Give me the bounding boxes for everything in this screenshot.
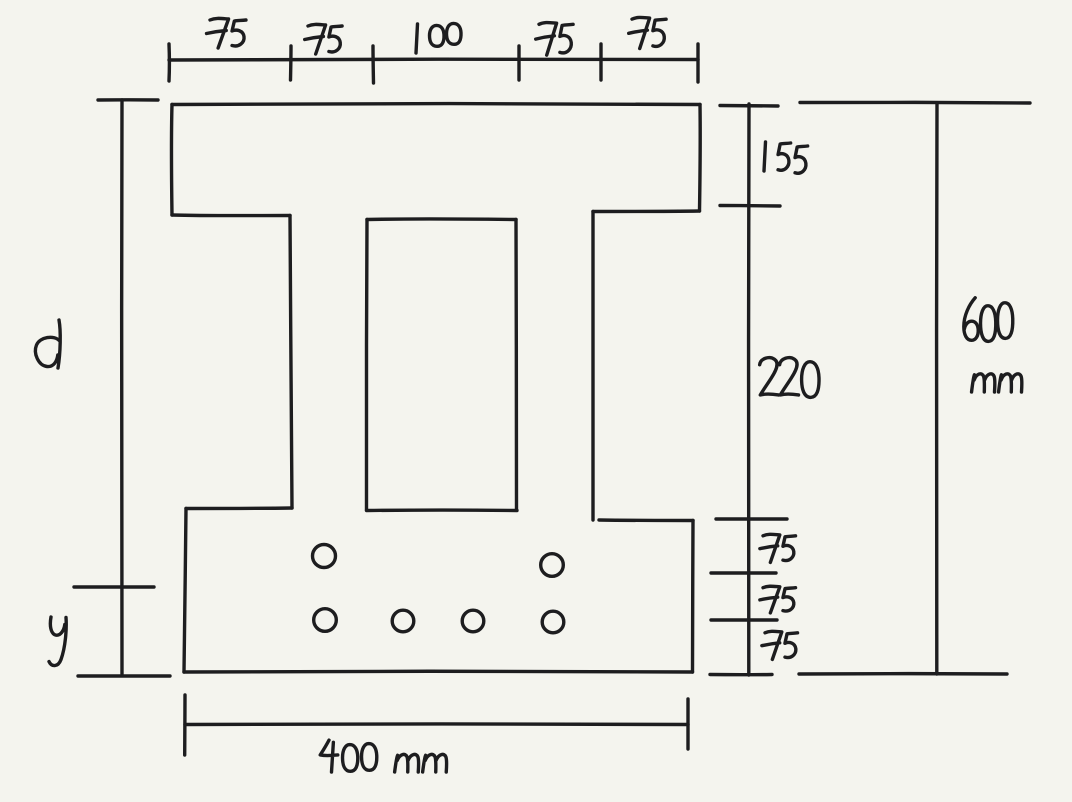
label 75 (1) — [207, 18, 246, 48]
beam top flange bottom-left edge — [172, 213, 290, 217]
beam bottom flange left edge — [184, 509, 186, 673]
label 75 (right 2) — [760, 586, 796, 613]
right inner dim tick 5 — [711, 618, 777, 621]
beam web right outer edge — [591, 212, 594, 521]
bottom dimension right tick — [686, 699, 689, 749]
rebar circle bottom 1 — [314, 609, 337, 632]
rebar circle bottom 2 — [392, 610, 414, 632]
rebar circle bottom 4 — [542, 611, 564, 633]
top dim tick 2 — [289, 46, 293, 80]
left dim middle tick — [74, 585, 154, 588]
top dim tick 4 — [517, 46, 520, 80]
label 155 — [764, 142, 808, 173]
rebar circle top-left — [313, 545, 336, 568]
top dimension line — [169, 57, 698, 61]
beam top flange bottom-right edge — [593, 209, 700, 213]
label 75 (2) — [305, 24, 342, 54]
label 600 — [964, 298, 1013, 342]
right inner dim tick 6 — [710, 673, 772, 677]
beam top flange top edge — [172, 102, 700, 106]
top dim tick 5 — [599, 44, 602, 80]
label 75 (right 3) — [762, 631, 798, 659]
beam top flange right edge — [698, 105, 702, 212]
label 75 (3) — [536, 23, 573, 56]
far right bottom reference line — [799, 672, 1007, 676]
far right dimension vertical line — [935, 103, 939, 674]
top dim tick 1 — [167, 44, 171, 81]
right inner dim tick 4 — [711, 571, 776, 574]
left dim bottom tick — [78, 674, 170, 677]
left dim top tick — [98, 98, 158, 102]
bottom dimension line — [185, 722, 688, 726]
right inner dimension vertical line — [747, 104, 751, 675]
label 75 (right 1) — [760, 534, 796, 562]
beam web right step — [599, 518, 693, 522]
beam web left step — [186, 506, 292, 510]
label 400 — [320, 740, 377, 772]
right inner dim tick 3 — [716, 517, 787, 520]
bottom dimension left tick — [183, 695, 187, 755]
label d — [35, 320, 60, 368]
label 100 — [416, 23, 461, 53]
inner hole left edge — [365, 220, 369, 511]
right inner dim tick 2 — [720, 204, 780, 208]
rebar circle top-right — [541, 554, 564, 577]
beam bottom edge — [184, 670, 693, 674]
inner hole top edge — [367, 217, 516, 221]
label mm (600) — [972, 374, 1022, 392]
top dim tick 6 — [696, 44, 699, 82]
left dimension vertical line — [120, 100, 124, 674]
beam bottom flange right edge — [691, 521, 695, 673]
right inner dim tick 1 — [720, 104, 778, 108]
beam web left outer edge — [290, 216, 292, 509]
label 75 (4) — [629, 17, 666, 48]
top dim tick 3 — [371, 46, 375, 83]
beam top flange left edge — [170, 105, 174, 216]
inner hole right edge — [514, 220, 518, 511]
rebar circle bottom 3 — [462, 610, 484, 632]
inner hole bottom edge — [367, 508, 518, 512]
far right top reference line — [800, 101, 1030, 105]
label y — [49, 617, 66, 666]
label mm (400) — [395, 754, 447, 772]
label 220 — [760, 358, 819, 398]
